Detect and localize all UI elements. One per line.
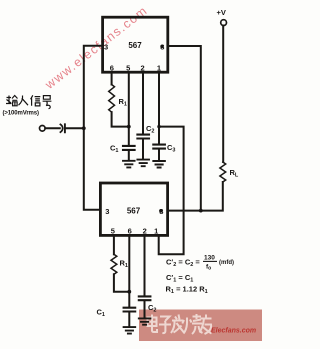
junction dot pin1 branch upper (157, 125, 160, 128)
ground below lower C2 (139, 318, 151, 324)
junction dot R1/pin5 upper (127, 125, 131, 129)
wire coupling cap to node (65, 127, 84, 129)
wire R1 bottom to pin5 line (112, 112, 129, 127)
svg-text:C′2 = C2 =: C′2 = C2 = (166, 258, 200, 269)
svg-text:5: 5 (111, 227, 115, 236)
IC U1 567 box (103, 17, 168, 72)
友 (200, 315, 212, 335)
电 (148, 315, 158, 333)
resistor R1 (lower) zigzag (111, 254, 117, 274)
capacitor C1 (upper) plates (123, 146, 135, 150)
wire C3 to ground (158, 150, 160, 160)
wire C1 to ground (128, 151, 130, 160)
IC U2 567 box (100, 183, 167, 235)
svg-text:8: 8 (160, 42, 164, 51)
svg-text:1: 1 (154, 227, 158, 236)
svg-text:5: 5 (126, 64, 130, 73)
pin8 dot U2 (159, 209, 163, 213)
wire terminal to coupling cap (45, 127, 60, 129)
svg-text:RL: RL (230, 168, 239, 179)
coupling capacitor curved plate (60, 124, 62, 132)
信 (31, 95, 41, 106)
svg-text:fo: fo (206, 264, 211, 272)
svg-text:R1: R1 (120, 259, 128, 270)
capacitor C2 (upper) plates (137, 135, 149, 139)
wire pin5 U2 down (113, 235, 115, 254)
capacitor C3 plates (153, 145, 165, 149)
wire pin6 U1 down (111, 72, 113, 84)
wire pin6 U2 down to C1' (128, 235, 130, 307)
子 (159, 317, 171, 334)
+V supply terminal (221, 20, 227, 26)
svg-text:C2: C2 (148, 303, 156, 314)
svg-text:3: 3 (104, 43, 108, 52)
svg-text:R1 = 1.12 R1: R1 = 1.12 R1 (166, 285, 208, 296)
pin8 dot U1 (160, 45, 163, 48)
junction dot input node (82, 126, 86, 130)
wire pin8 U1 to output vertical (168, 46, 201, 211)
ground below lower C1 (124, 327, 136, 334)
wire RL bottom to output line (168, 182, 223, 211)
svg-text:6: 6 (128, 227, 132, 236)
wire lower R1 bottom to pin6 line (114, 274, 129, 291)
watermark www.elecfans.com diagonal (42, 3, 151, 92)
烧 (182, 314, 202, 334)
svg-text:2: 2 (141, 64, 145, 73)
svg-text:130: 130 (204, 255, 215, 262)
号 (43, 96, 52, 109)
resistor RL zigzag (220, 162, 226, 182)
junction dot lower R1/pin6 (127, 290, 131, 294)
入 (19, 96, 29, 106)
wire +V down to RL (222, 26, 224, 162)
svg-text:(mfd): (mfd) (219, 260, 234, 266)
wire C1' to ground (128, 313, 130, 326)
ground below C2 (137, 160, 149, 167)
wire pin1 node right and down to output net (159, 127, 184, 255)
coupling capacitor straight plate (64, 124, 66, 132)
输 (6, 96, 18, 106)
wire C2' to ground (144, 301, 146, 317)
resistor R1 (upper) zigzag (109, 85, 115, 113)
banner block bottom (139, 310, 262, 342)
banner chinese characters 电子发烧友 (hand strokes) (148, 314, 212, 334)
svg-text:567: 567 (128, 41, 142, 50)
svg-text:2: 2 (143, 227, 147, 236)
capacitor C2 (lower) plates (139, 296, 151, 300)
svg-text:567: 567 (127, 207, 141, 216)
input signal chinese label 输入信号 (hand strokes) (6, 95, 51, 108)
wire pin2 U1 down to C2 (142, 72, 144, 134)
junction dot output line (199, 209, 203, 213)
formula fraction bar (203, 260, 217, 262)
发 (171, 315, 184, 334)
svg-text:+V: +V (217, 8, 226, 17)
svg-text:Elecfans.com: Elecfans.com (211, 328, 256, 335)
svg-text:3: 3 (105, 207, 109, 216)
svg-text:1: 1 (157, 64, 161, 73)
wire pin5 U1 down to C1 (128, 72, 130, 145)
svg-text:6: 6 (110, 64, 114, 73)
input terminal circle (40, 126, 46, 132)
svg-text:(>100mVrms): (>100mVrms) (3, 111, 40, 117)
svg-text:R1: R1 (119, 97, 127, 108)
svg-text:C′1 = C1: C′1 = C1 (166, 273, 193, 284)
wire C2 to ground (142, 140, 144, 159)
formula line 1 C'2 = C2 = 130/fo (mfd) (166, 255, 234, 272)
capacitor C1 (lower) plates (124, 308, 136, 312)
wire pin1 U1 down to C3 (158, 72, 160, 144)
ground below C1 (123, 161, 135, 168)
svg-text:C3: C3 (167, 143, 175, 154)
svg-text:C1: C1 (110, 144, 118, 155)
main schematic ink (40, 17, 227, 333)
svg-text:C1: C1 (97, 308, 105, 319)
ground below C3 (153, 161, 165, 168)
wire pin2 U2 down to C2' (144, 235, 146, 296)
svg-text:8: 8 (159, 207, 163, 216)
wire pin3 U1 to input node vertical (84, 46, 103, 210)
svg-text:C2: C2 (146, 124, 154, 135)
